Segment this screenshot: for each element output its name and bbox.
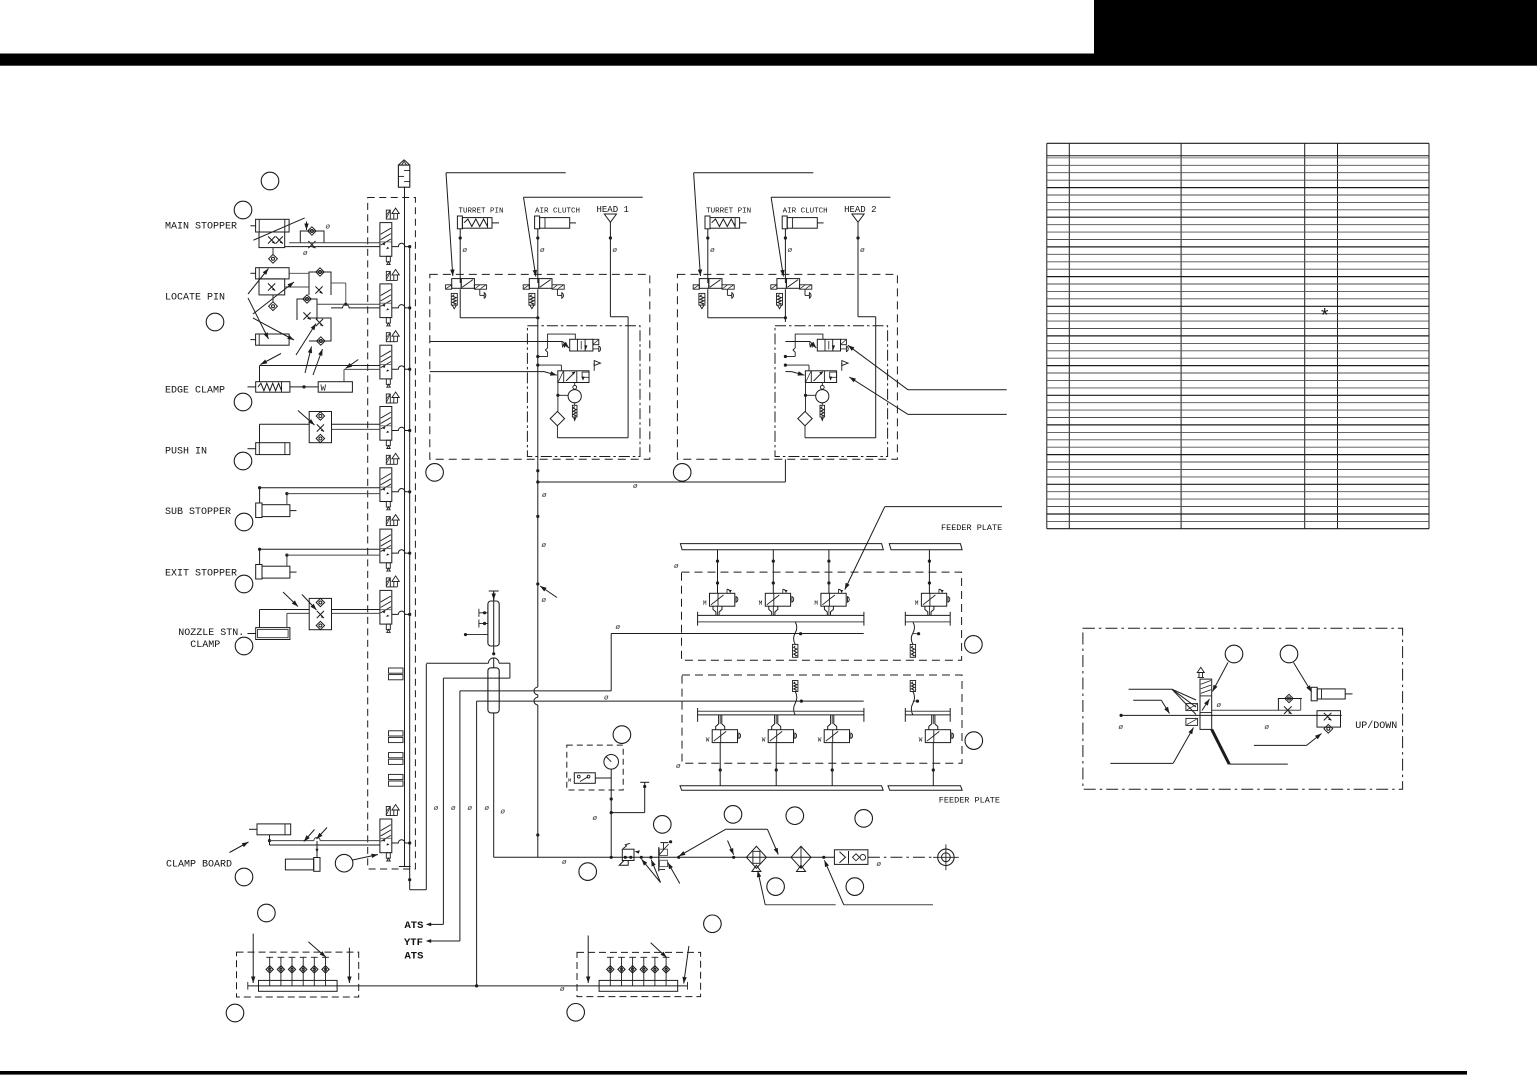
fan leaders from below xyxy=(642,859,661,882)
head drop wire 2 xyxy=(857,222,859,316)
cylinder sub stopper xyxy=(256,503,262,518)
air filter F1 on manifold supply xyxy=(398,165,409,187)
inset leader fan left xyxy=(1129,688,1172,690)
svg-text:ø: ø xyxy=(676,763,681,771)
head unit spring rect 2 xyxy=(821,403,823,406)
head unit valve B feed stub 2 xyxy=(784,364,787,367)
upper feeder hose 1 xyxy=(794,622,797,644)
speed controller loop locate pin B xyxy=(297,299,317,320)
pressure switch PS1 xyxy=(574,773,595,784)
cylinder nozzle station clamp xyxy=(256,628,290,640)
head2 feed wire A short xyxy=(785,341,810,343)
head group 1 top leader 2 xyxy=(524,196,643,198)
bottom-right manifold leader xyxy=(651,943,667,958)
balloon below head box 2 xyxy=(673,464,691,482)
feeder plate bar upper right xyxy=(889,544,962,550)
inset valve top pin xyxy=(1198,677,1205,679)
ATS wire 2 xyxy=(476,701,478,986)
svg-text:ø: ø xyxy=(434,805,439,813)
feeder plate drop wire U2 xyxy=(772,550,774,594)
feeder valve FU1 funnel xyxy=(713,606,716,615)
ATS wire 1 xyxy=(442,678,444,924)
head1 feed wire A xyxy=(430,341,563,343)
solenoid valve V2 locate pin on manifold xyxy=(380,269,399,326)
svg-text:ø: ø xyxy=(1119,724,1124,732)
manifold dashed enclosure xyxy=(368,198,416,870)
svg-text:FEEDER PLATE: FEEDER PLATE xyxy=(939,796,1000,806)
feeder valve FD2 xyxy=(762,730,797,744)
inset cylinder up-down xyxy=(1311,687,1317,701)
svg-text:YTF: YTF xyxy=(404,937,423,949)
header black box top-right xyxy=(1094,0,1537,54)
gauge branch wire with tee xyxy=(611,812,645,814)
return loop bottom wire xyxy=(410,889,427,891)
distribution block lower xyxy=(488,668,499,713)
head unit valve B 2 xyxy=(805,361,848,383)
lubricator on main line xyxy=(658,847,660,871)
bottom-left manifold dashed box xyxy=(237,952,359,997)
locate pin leader diagonals xyxy=(253,282,294,314)
balloon below head box 1 xyxy=(426,464,444,482)
pressure gauge G1 xyxy=(604,755,619,770)
svg-text:AIR CLUTCH: AIR CLUTCH xyxy=(535,208,580,216)
upper feeder rail left xyxy=(698,614,864,616)
speed controller loop locate pin C xyxy=(309,318,331,341)
solenoid valve V7 nozzle clamp on manifold xyxy=(380,576,399,633)
feeder plate bar upper left xyxy=(680,544,883,550)
feeder plate leader upper xyxy=(885,506,1002,508)
inset balloon 1 leader xyxy=(1213,663,1229,692)
feeder valve FU2 xyxy=(759,589,794,607)
leader wires to filters bottom xyxy=(765,904,836,906)
svg-text:*: * xyxy=(1319,306,1330,328)
svg-text:M: M xyxy=(759,600,763,607)
speed controller loop locate pin A xyxy=(309,272,331,295)
locate pin port wires to valve V2 xyxy=(344,303,347,306)
pressure switch dashed box xyxy=(567,745,623,790)
balloon clamp board valve xyxy=(335,854,353,872)
lower feeder rail left xyxy=(698,710,864,712)
svg-text:AIR CLUTCH: AIR CLUTCH xyxy=(783,208,828,216)
valve V8 clamp board output hump to bus xyxy=(392,840,410,843)
upper feeder rail right xyxy=(905,614,950,616)
feeder valve FD2 funnel xyxy=(772,715,775,730)
feeder valve FD4 funnel xyxy=(929,715,932,730)
distribution block upper xyxy=(489,590,499,592)
pilot valve air clutch 1 xyxy=(523,279,564,309)
main stopper port wires to valve V1 xyxy=(289,242,380,244)
manifold bar right xyxy=(599,980,678,991)
solenoid valve V4 push in on manifold xyxy=(380,392,399,449)
leader diagonal main stopper xyxy=(253,218,304,240)
turret pin drop wire 1 xyxy=(459,229,461,283)
edge clamp pilot block xyxy=(318,382,352,393)
inset speed controller xyxy=(1278,699,1302,711)
head2 drop wire to junction xyxy=(784,459,786,482)
svg-text:TURRET PIN: TURRET PIN xyxy=(706,208,751,216)
edge clamp spring cylinder xyxy=(256,382,290,393)
manifold right valve 5 xyxy=(654,957,656,986)
main air line xyxy=(494,856,835,858)
head unit bottom loop wire 2 xyxy=(805,437,876,439)
manifold right valve 6 xyxy=(665,957,667,986)
air filter diamond 2 xyxy=(791,846,811,868)
inset balloon 2 leader xyxy=(1294,663,1312,693)
balloon below clamp board xyxy=(258,904,276,922)
svg-text:M: M xyxy=(703,600,707,607)
manifold right valve 1 xyxy=(609,957,611,986)
feeder valve FU4 funnel xyxy=(925,606,928,615)
feeder valve FD3 xyxy=(818,730,853,744)
parts table grid xyxy=(1047,143,1429,528)
svg-text:FEEDER PLATE: FEEDER PLATE xyxy=(941,523,1002,533)
manifold right valve 3 xyxy=(632,957,634,986)
svg-text:ø: ø xyxy=(860,247,865,255)
manifold blank station plates xyxy=(389,668,404,673)
push in wires to valve V4 xyxy=(259,424,261,442)
svg-text:ø: ø xyxy=(1217,702,1222,710)
nozzle clamp speed controller block xyxy=(309,598,331,629)
inset valve pilot 2 xyxy=(1186,718,1198,725)
manifold left valve 2 xyxy=(280,957,282,986)
valve V7 nozzle clamp output hump to bus xyxy=(392,611,410,614)
manifold left valve 6 xyxy=(325,957,327,986)
svg-text:ø: ø xyxy=(788,247,793,255)
balloon bottom left xyxy=(226,1004,244,1022)
air clutch drop wire 2 xyxy=(784,229,786,283)
cylinder clamp board lower xyxy=(285,859,313,870)
inset gray branch wire xyxy=(1212,709,1301,711)
inset lower block xyxy=(1317,711,1341,727)
valve V5 sub stopper output hump to bus xyxy=(392,488,410,491)
svg-text:M: M xyxy=(568,777,571,784)
speed controller block locate pin xyxy=(259,279,285,295)
balloons below lower feeder plate xyxy=(724,806,742,824)
lower feeder regulator 2 xyxy=(910,681,915,692)
bottom interconnect wire xyxy=(247,982,249,990)
valve V6 exit stopper output hump to bus xyxy=(392,550,410,553)
turret pin spring cylinder 1 xyxy=(457,216,462,229)
head2 callout wire A to table xyxy=(848,345,908,390)
air clutch drop wire 1 xyxy=(537,229,539,283)
bottom-left manifold supply arrow 1 xyxy=(252,934,254,983)
manifold left valve 5 xyxy=(313,957,315,986)
head unit supply S-wire 2 xyxy=(784,355,787,358)
svg-text:ø: ø xyxy=(562,859,567,867)
bottom-right manifold supply arrow xyxy=(587,936,589,984)
feeder supply wire lower xyxy=(477,700,864,702)
solenoid valve V5 sub stopper on manifold xyxy=(380,453,399,510)
svg-text:ø: ø xyxy=(593,815,598,823)
balloon clamp board xyxy=(235,868,253,886)
head nozzle triangle 2 xyxy=(852,214,864,222)
inset balloon 1 xyxy=(1225,645,1243,663)
svg-text:ATS: ATS xyxy=(405,951,424,963)
svg-text:MAIN STOPPER: MAIN STOPPER xyxy=(165,222,237,233)
svg-text:EDGE CLAMP: EDGE CLAMP xyxy=(165,386,225,397)
inset valve body xyxy=(1200,679,1212,729)
svg-text:ø: ø xyxy=(468,805,473,813)
exit stopper wires to valve V6 xyxy=(259,549,261,564)
check valve locate pin 1 xyxy=(272,295,274,302)
manifold right valve 4 xyxy=(643,957,645,986)
svg-text:ø: ø xyxy=(540,247,545,255)
valve V2 locate pin output hump to bus xyxy=(392,305,410,308)
YTF wire xyxy=(459,691,461,941)
bus wire with bridge to block center xyxy=(426,662,488,664)
leader lower right of lubricator xyxy=(668,863,680,884)
manifold left valve 4 xyxy=(302,957,304,986)
balloons left column xyxy=(261,172,279,190)
lower feeder hose 1 xyxy=(794,691,797,715)
head unit valve A 1 xyxy=(562,339,601,351)
svg-text:ø: ø xyxy=(1265,724,1270,732)
pilot valve air clutch 2 xyxy=(771,279,812,309)
head unit valve A 2 xyxy=(809,339,848,351)
balloon left of gauge xyxy=(579,863,597,881)
feeder valve FD1 funnel xyxy=(716,715,719,730)
svg-text:PUSH IN: PUSH IN xyxy=(165,447,207,458)
feeder plate bar lower right xyxy=(888,786,962,791)
inset main wire xyxy=(1120,714,1123,717)
svg-text:ø: ø xyxy=(633,483,638,491)
manifold bar left xyxy=(259,980,338,991)
edge clamp link wire xyxy=(290,386,318,388)
short leader at junction xyxy=(728,841,734,855)
svg-text:ø: ø xyxy=(674,563,679,571)
svg-text:ø: ø xyxy=(542,597,547,605)
two-tail leader bridge xyxy=(679,829,726,856)
solenoid valve V1 main stopper on manifold xyxy=(380,208,399,265)
solenoid valve V6 exit stopper on manifold xyxy=(380,515,399,572)
head unit gauge circle 1 xyxy=(574,383,576,386)
svg-text:LOCATE PIN: LOCATE PIN xyxy=(165,293,225,304)
svg-text:ø: ø xyxy=(501,809,506,817)
head unit inner dash-dot box 1 xyxy=(527,326,640,457)
clamp board wires to valve V8 xyxy=(269,835,271,845)
head unit supply S-wire 1 xyxy=(536,355,539,358)
svg-text:W: W xyxy=(321,384,327,394)
balloon right of lower feeder box xyxy=(965,732,983,750)
return loop right wire xyxy=(425,664,427,890)
head unit filter diamond 1 xyxy=(550,411,564,425)
valve V1 main stopper output hump to bus xyxy=(392,243,410,246)
head unit valve B feed stub 1 xyxy=(536,364,539,367)
balloon left of lower feeder box xyxy=(613,726,631,744)
head unit bottom loop wire 1 xyxy=(557,437,628,439)
manifold return bus wire xyxy=(409,247,411,890)
svg-text:TURRET PIN: TURRET PIN xyxy=(459,208,504,216)
pressure regulator on main line xyxy=(622,849,634,860)
svg-text:M: M xyxy=(814,600,818,607)
valve V3 edge clamp output hump to bus xyxy=(392,366,410,369)
speed controller block main stopper xyxy=(259,232,285,248)
svg-text:M: M xyxy=(915,600,919,607)
quick coupling xyxy=(834,850,868,865)
feeder valve FU1 xyxy=(703,589,738,607)
head2 callout wire B to table xyxy=(849,377,908,414)
feeder plate drop wire D3 xyxy=(831,743,833,786)
manifold left valve 1 xyxy=(269,957,271,986)
upper feeder hose 2 xyxy=(911,622,914,644)
balloon bottom middle xyxy=(567,1004,585,1022)
head group 2 top leader 2 xyxy=(771,196,890,198)
dash-dot supply continuation xyxy=(868,856,934,858)
head unit valve B 1 xyxy=(558,361,601,383)
air clutch cylinder 2 xyxy=(782,216,787,229)
head1-head2 link wire xyxy=(538,481,786,483)
inset leader left 2 xyxy=(1133,699,1161,701)
svg-text:ø: ø xyxy=(326,224,331,232)
svg-text:W: W xyxy=(919,737,923,744)
head group 2 outer dashed box xyxy=(677,274,897,459)
upper feeder regulator 2 xyxy=(910,644,915,657)
manifold right valve 2 xyxy=(621,957,623,986)
lower feeder hose 2 xyxy=(911,691,914,715)
svg-text:ø: ø xyxy=(710,247,715,255)
head1 feed wire B xyxy=(430,371,544,373)
manifold left valve 3 xyxy=(291,957,293,986)
bottom-left manifold supply arrow 2 xyxy=(348,948,350,983)
sub stopper wires to valve V5 xyxy=(259,488,261,503)
svg-text:UP/DOWN: UP/DOWN xyxy=(1355,720,1397,732)
head unit inner dash-dot box 2 xyxy=(775,326,888,457)
feeder valve FU3 xyxy=(814,589,849,607)
head drop wire 1 xyxy=(609,222,611,316)
svg-text:W: W xyxy=(818,737,822,744)
balloon right of clamp leaders xyxy=(654,816,672,834)
feeder valve FU3 funnel xyxy=(824,606,827,615)
lower feeder dashed box xyxy=(682,675,962,763)
pilot valve turret pin 2 xyxy=(693,279,734,309)
turret pin spring cylinder 2 xyxy=(705,216,710,229)
head group 2 top leader 1 xyxy=(694,172,814,174)
head unit circle branch 1 xyxy=(557,383,559,412)
svg-text:ø: ø xyxy=(616,624,621,632)
cylinder main stopper xyxy=(256,219,290,232)
head nozzle triangle 1 xyxy=(604,214,616,222)
block stub port 2 xyxy=(478,620,480,628)
leader arrows locate pin xyxy=(248,269,269,295)
svg-text:NOZZLE STN.: NOZZLE STN. xyxy=(178,628,244,639)
head group 1 outer dashed box xyxy=(430,274,650,459)
solenoid valve V3 edge clamp on manifold xyxy=(380,331,399,388)
svg-text:SUB STOPPER: SUB STOPPER xyxy=(165,507,231,518)
svg-text:EXIT STOPPER: EXIT STOPPER xyxy=(165,569,237,580)
feeder plate drop wire D2 xyxy=(775,743,777,786)
inset dash-dot box xyxy=(1083,628,1403,789)
clamp board flow arrows xyxy=(304,830,315,842)
cylinder locate pin lower xyxy=(256,334,290,345)
svg-text:ø: ø xyxy=(303,250,308,258)
pilot valve turret pin 1 xyxy=(446,279,487,309)
valve V4 push in output hump to bus xyxy=(392,427,410,430)
svg-text:CLAMP: CLAMP xyxy=(190,640,220,651)
gauge drop wire xyxy=(610,769,612,857)
svg-text:ATS: ATS xyxy=(405,920,424,932)
feeder supply wire upper xyxy=(460,690,611,692)
feeder plate drop wire D4 xyxy=(932,743,934,786)
feeder valve FD1 xyxy=(706,730,741,744)
position target mark xyxy=(938,849,954,865)
cylinder push in xyxy=(256,443,290,455)
lower feeder regulator 1 xyxy=(793,681,798,692)
inset hose diagonal xyxy=(1212,729,1230,764)
hose jog marks on drop wire xyxy=(534,687,539,695)
svg-text:ø: ø xyxy=(613,247,618,255)
feeder plate drop wire U3 xyxy=(828,550,830,594)
manifold supply line xyxy=(404,187,406,867)
turret pin drop wire 2 xyxy=(707,229,709,283)
feeder plate drop wire D1 xyxy=(719,743,721,786)
inset valve pilot 1 xyxy=(1186,704,1198,711)
solenoid valve V8 clamp board on manifold xyxy=(380,805,399,862)
footer black bar xyxy=(0,1071,1467,1075)
head2 feed wire B short xyxy=(785,371,791,373)
edge clamp wires to valve V3 xyxy=(259,366,261,382)
svg-text:W: W xyxy=(762,737,766,744)
svg-text:W: W xyxy=(706,737,710,744)
head unit filter diamond 2 xyxy=(798,411,812,425)
feeder valve FU2 funnel xyxy=(769,606,772,615)
svg-text:ø: ø xyxy=(877,861,882,869)
feeder plate bar lower left xyxy=(680,786,883,791)
bottom-right manifold slant arrow xyxy=(684,946,689,984)
feeder valve FU4 xyxy=(915,589,950,607)
svg-text:CLAMP BOARD: CLAMP BOARD xyxy=(166,860,232,871)
feeder valve FD3 funnel xyxy=(828,715,831,730)
cylinder exit stopper xyxy=(256,565,262,580)
inset leader bottom right xyxy=(1254,744,1307,746)
cylinder locate pin upper xyxy=(256,268,290,279)
locate pin interconnect wires xyxy=(285,286,309,288)
svg-text:ø: ø xyxy=(542,542,547,550)
air clutch cylinder 1 xyxy=(535,216,540,229)
svg-text:ø: ø xyxy=(560,986,565,994)
balloons at main air line xyxy=(767,878,785,896)
check valve main stopper xyxy=(272,248,274,255)
bottom-left manifold leader xyxy=(308,942,326,957)
valve under-loop wire 2 xyxy=(707,289,709,318)
arrow marker on drop wire xyxy=(540,586,557,598)
svg-text:ø: ø xyxy=(542,492,547,500)
svg-text:ø: ø xyxy=(451,805,456,813)
head unit spring rect 1 xyxy=(574,403,576,406)
svg-text:ø: ø xyxy=(463,247,468,255)
air filter diamond 1 xyxy=(746,846,766,868)
block stub port 3 xyxy=(464,633,467,636)
block stub port 1 xyxy=(478,609,480,617)
cylinder clamp board upper xyxy=(257,824,291,835)
balloon right of bottom-right manifold xyxy=(704,915,722,933)
balloon right of upper feeder box xyxy=(965,636,983,654)
svg-text:ø: ø xyxy=(485,805,490,813)
supply line blind end xyxy=(399,866,411,868)
head unit gauge circle 2 xyxy=(821,383,823,386)
feeder plate drop wire U1 xyxy=(717,550,719,594)
feeder plate drop wire U4 xyxy=(928,550,930,594)
upper feeder dashed box xyxy=(682,572,962,660)
air clutch 1 main drop wire xyxy=(537,322,539,857)
valve under-loop wire 1 xyxy=(459,289,461,318)
header black bar full width xyxy=(0,54,1537,66)
lower feeder rail right xyxy=(905,710,950,712)
head group 1 top leader 1 xyxy=(446,172,566,174)
upper feeder regulator 1 xyxy=(793,644,798,657)
push in speed controller block xyxy=(309,412,331,443)
head unit circle branch 2 xyxy=(805,383,807,412)
feeder valve FD4 xyxy=(919,730,954,744)
